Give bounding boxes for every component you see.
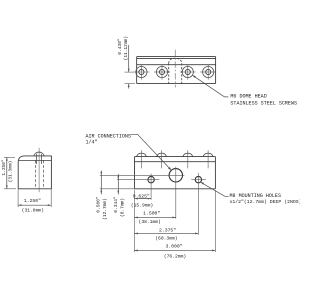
svg-text:0.625": 0.625" [133, 193, 150, 199]
side view screw dome [34, 152, 44, 156]
bottom edge extension left [100, 188, 135, 190]
svg-text:0.438": 0.438" [117, 38, 123, 55]
screw S2 top view [154, 64, 170, 79]
svg-text:(76.2mm): (76.2mm) [164, 254, 186, 260]
svg-text:1.500": 1.500" [143, 210, 160, 216]
dim 3.000 line [134, 249, 215, 251]
svg-text:(31.8mm): (31.8mm) [22, 207, 44, 213]
svg-text:(60.3mm): (60.3mm) [155, 236, 177, 242]
screw S1 top view [133, 64, 149, 79]
svg-text:x1/2"(12.7mm) DEEP (2NOS): x1/2"(12.7mm) DEEP (2NOS) [230, 199, 301, 205]
centerline top view [174, 50, 176, 88]
dim 0.438 dimension line [128, 45, 130, 89]
svg-text:(11.12mm): (11.12mm) [123, 36, 129, 60]
dim 0.500 line [100, 171, 102, 195]
dim 1.500 line [134, 216, 175, 218]
side view cap seam line [18, 159, 51, 161]
dim 0.625 line [134, 198, 151, 200]
side view screw centerline [38, 148, 40, 192]
svg-text:0.344": 0.344" [113, 196, 119, 213]
cascade extension lines [134, 190, 215, 252]
mounting hole H2 [195, 176, 201, 182]
top view outline [137, 57, 216, 84]
svg-text:(31.3mm): (31.3mm) [8, 161, 14, 183]
side view outline [18, 156, 51, 189]
screw S4 top view [200, 64, 216, 79]
svg-text:0.500": 0.500" [96, 196, 102, 213]
svg-text:1/4": 1/4" [86, 140, 98, 146]
svg-text:3.000": 3.000" [165, 243, 182, 249]
air port large circle [169, 169, 182, 182]
screw head bump B4 front view [203, 153, 213, 156]
hidden dome top view [169, 58, 182, 83]
screw S3 top view [180, 64, 196, 79]
svg-text:STAINLESS STEEL SCREWS: STAINLESS STEEL SCREWS [230, 100, 297, 106]
side view hidden hole [36, 160, 44, 188]
svg-text:1.250": 1.250" [1, 159, 7, 176]
svg-text:1.250": 1.250" [24, 198, 41, 204]
svg-text:(8.7mm): (8.7mm) [119, 198, 125, 217]
screw head bump B2 front view [157, 153, 167, 156]
leader air connections [131, 134, 171, 169]
large circle centerlines [100, 174, 185, 176]
front view outline [135, 157, 216, 189]
svg-text:(12.7mm): (12.7mm) [102, 198, 108, 220]
leader M8 mounting holes [201, 182, 229, 196]
svg-text:M8 MOUNTING HOLES: M8 MOUNTING HOLES [230, 193, 282, 199]
svg-text:2.375": 2.375" [159, 227, 176, 233]
svg-text:AIR CONNECTIONS: AIR CONNECTIONS [86, 133, 131, 139]
mounting hole H1 [148, 176, 154, 182]
leader M6 screws [193, 75, 229, 97]
dim 2.375 line [134, 232, 198, 234]
screw head bump B1 front view [137, 153, 147, 156]
side view vertical dim [4, 156, 15, 158]
svg-text:(38.1mm): (38.1mm) [139, 219, 161, 225]
screw head bump B3 front view [183, 153, 193, 156]
dim 0.438 extension lines [125, 71, 135, 73]
dim 0.344 line [117, 174, 119, 194]
side view horizontal dim [17, 190, 19, 208]
side view screw shaft [36, 154, 38, 164]
svg-text:(15.9mm): (15.9mm) [131, 202, 153, 208]
svg-text:M6 DOME HEAD: M6 DOME HEAD [230, 93, 266, 99]
